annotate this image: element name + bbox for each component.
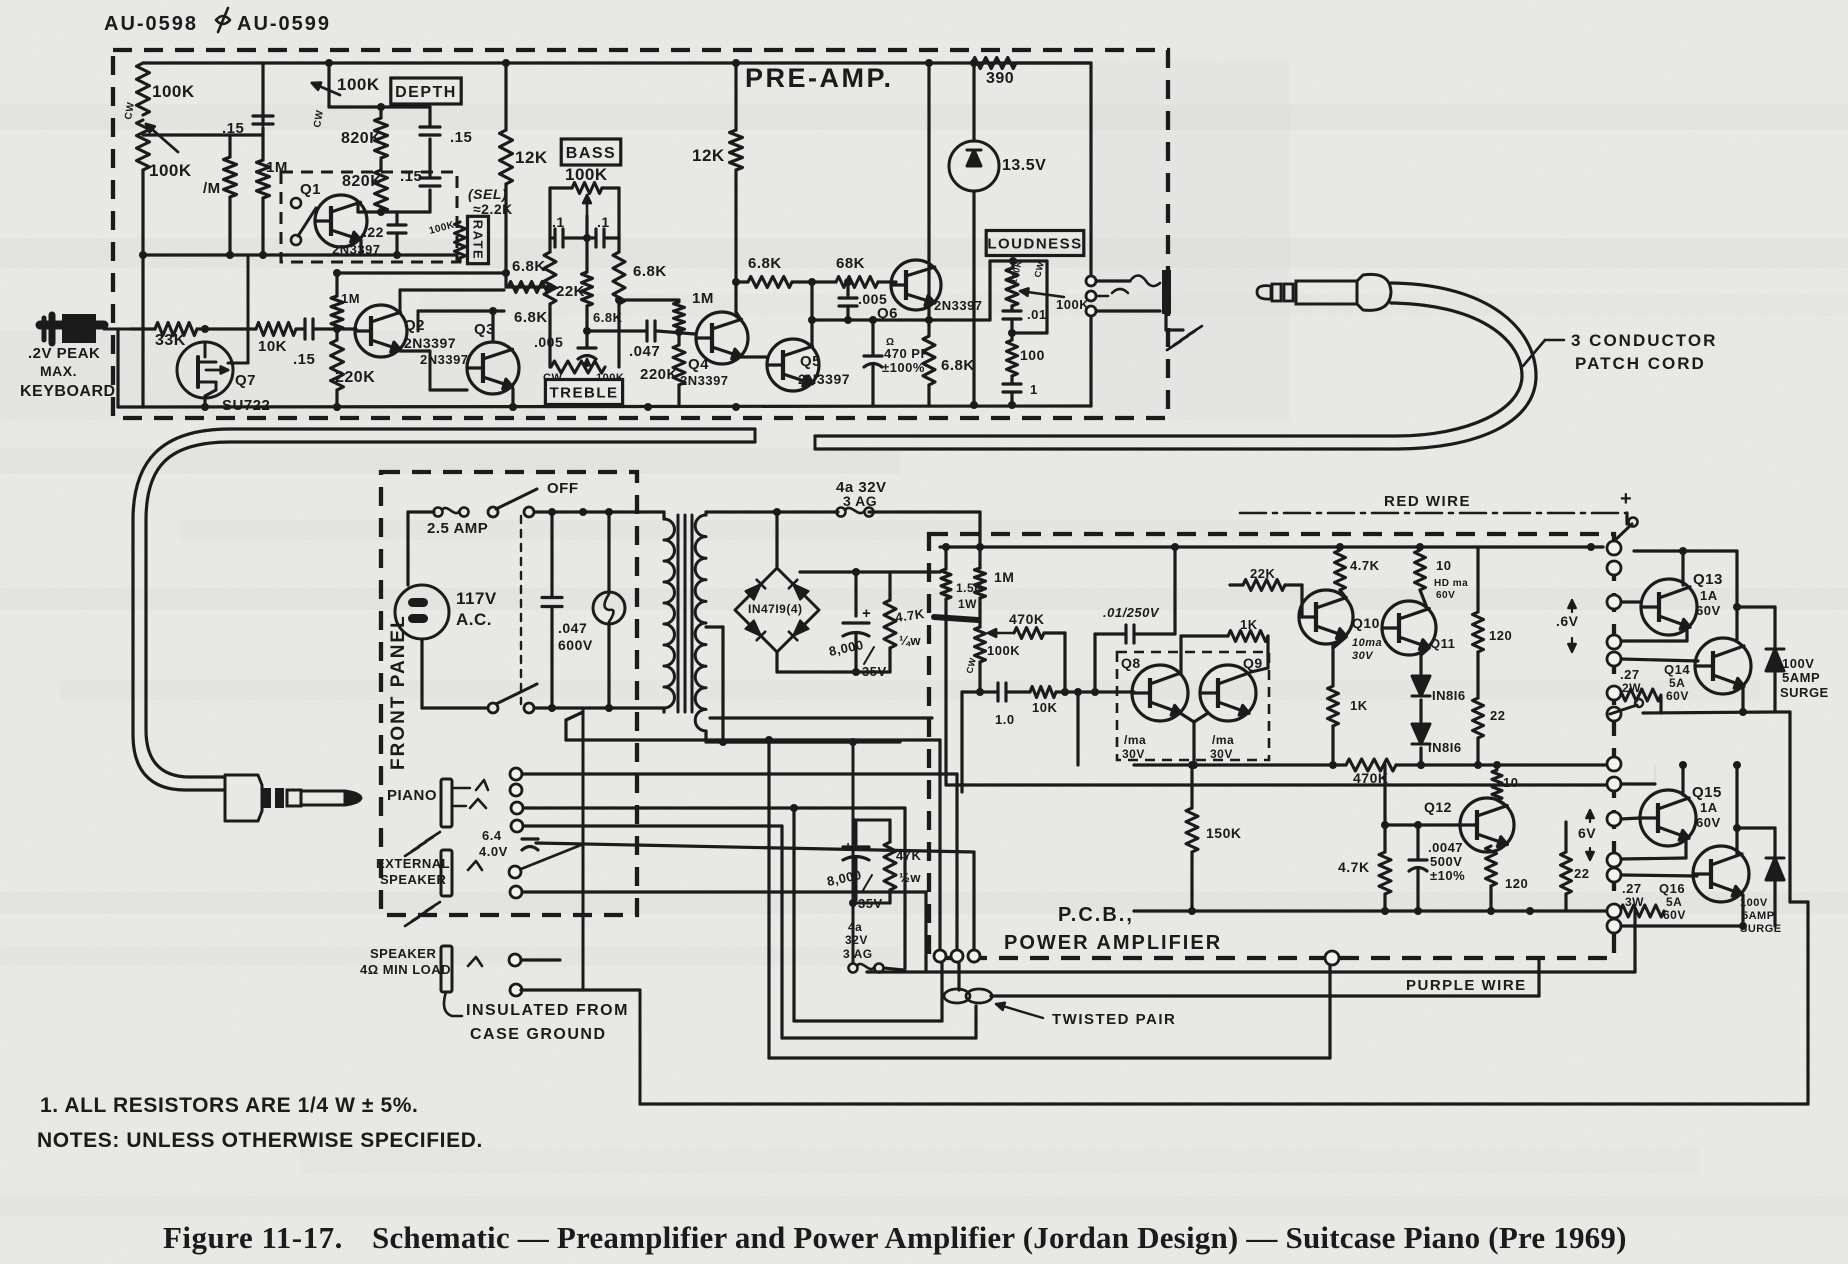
svg-text:10: 10 [1436, 558, 1451, 573]
svg-text:600V: 600V [558, 637, 593, 653]
svg-text:PATCH CORD: PATCH CORD [1575, 354, 1706, 373]
svg-text:13.5V: 13.5V [1002, 157, 1046, 174]
svg-text:.6V: .6V [1556, 613, 1579, 629]
svg-text:NOTES: UNLESS OTHERWISE SPECI: NOTES: UNLESS OTHERWISE SPECIFIED. [37, 1129, 483, 1152]
svg-text:22K: 22K [556, 283, 585, 300]
svg-text:10K: 10K [258, 338, 287, 355]
svg-text:1A: 1A [1700, 588, 1718, 603]
svg-text:100K: 100K [565, 165, 608, 184]
svg-text:1W: 1W [958, 597, 977, 611]
svg-text:MAX.: MAX. [40, 363, 77, 379]
svg-text:1K: 1K [1350, 698, 1368, 713]
svg-text:Q14: Q14 [1664, 662, 1690, 677]
svg-text:.047: .047 [558, 620, 587, 636]
svg-text:1M: 1M [994, 569, 1014, 585]
svg-text:SPEAKER: SPEAKER [380, 872, 446, 887]
svg-text:.01/250V: .01/250V [1103, 605, 1160, 620]
svg-text:(SEL): (SEL) [468, 186, 507, 202]
svg-text:.005: .005 [858, 291, 887, 307]
svg-text:IN8I6: IN8I6 [1428, 740, 1462, 755]
svg-text:1M: 1M [692, 290, 714, 307]
svg-text:32V: 32V [845, 933, 868, 947]
svg-text:.27: .27 [1622, 881, 1642, 896]
svg-text:150K: 150K [1206, 825, 1241, 841]
svg-text:.0047: .0047 [1428, 840, 1463, 855]
svg-text:4.0V: 4.0V [479, 844, 508, 859]
svg-text:470K: 470K [1353, 770, 1388, 786]
svg-text:Q13: Q13 [1693, 571, 1723, 588]
svg-text:.22: .22 [363, 224, 384, 240]
svg-text:33K: 33K [155, 332, 186, 349]
svg-text:100K: 100K [337, 75, 380, 94]
svg-text:6.8K: 6.8K [512, 258, 546, 275]
svg-text:DEPTH: DEPTH [395, 84, 457, 101]
svg-text:4.7K: 4.7K [1338, 859, 1370, 875]
svg-text:5A: 5A [1666, 895, 1682, 909]
svg-text:/ma: /ma [1212, 733, 1234, 747]
svg-text:5A: 5A [1669, 676, 1685, 690]
svg-text:Schematic — Preamplifier and P: Schematic — Preamplifier and Power Ampli… [372, 1220, 1627, 1255]
svg-text:1: 1 [1030, 382, 1038, 397]
svg-text:.01: .01 [1027, 307, 1047, 322]
svg-text:6.8K: 6.8K [748, 255, 782, 272]
svg-text:6.8K: 6.8K [633, 263, 667, 280]
svg-text:A.C.: A.C. [456, 610, 492, 629]
svg-text:POWER AMPLIFIER: POWER AMPLIFIER [1004, 932, 1222, 954]
svg-text:6.4: 6.4 [482, 828, 502, 843]
svg-text:6.8K: 6.8K [514, 309, 548, 326]
svg-text:IN47I9(4): IN47I9(4) [748, 602, 803, 616]
svg-text:.005: .005 [534, 334, 563, 350]
svg-text:1.0: 1.0 [995, 712, 1015, 727]
svg-text:1. ALL RESISTORS ARE 1/4 W ±: 1. ALL RESISTORS ARE 1/4 W ± 5%. [40, 1094, 418, 1117]
svg-text:4Ω MIN LOAD: 4Ω MIN LOAD [360, 962, 451, 977]
svg-text:220K: 220K [640, 366, 678, 383]
svg-text:CASE GROUND: CASE GROUND [470, 1026, 607, 1043]
svg-text:±100%: ±100% [882, 360, 925, 375]
svg-text:Q7: Q7 [235, 372, 256, 389]
svg-text:2N3397: 2N3397 [420, 352, 469, 367]
svg-text:½w: ½w [899, 870, 921, 885]
svg-text:4a: 4a [848, 920, 862, 934]
svg-text:Q12: Q12 [1424, 799, 1452, 815]
svg-text:Q10: Q10 [1352, 615, 1380, 631]
svg-text:10K: 10K [1032, 700, 1057, 715]
svg-text:220K: 220K [335, 369, 375, 386]
svg-text:.27: .27 [1620, 667, 1640, 682]
svg-text:100V: 100V [1782, 656, 1814, 671]
svg-text:Q16: Q16 [1659, 881, 1685, 896]
svg-text:RATE: RATE [470, 220, 485, 260]
svg-text:.1: .1 [597, 214, 610, 230]
svg-text:820K: 820K [341, 130, 381, 147]
svg-text:500V: 500V [1430, 854, 1462, 869]
svg-text:100K: 100K [149, 161, 192, 180]
svg-text:60V: 60V [1436, 590, 1455, 601]
svg-text:.1: .1 [552, 214, 565, 230]
svg-text:470K: 470K [1009, 611, 1044, 627]
svg-text:Figure 11-17.: Figure 11-17. [163, 1220, 343, 1255]
svg-text:SPEAKER: SPEAKER [370, 946, 436, 961]
svg-text:2N3397: 2N3397 [798, 371, 850, 387]
svg-text:100K: 100K [152, 82, 195, 101]
svg-text:Q8: Q8 [1121, 655, 1141, 671]
svg-text:Q2: Q2 [404, 317, 425, 334]
svg-text:30V: 30V [1122, 747, 1145, 761]
svg-text:2N3397: 2N3397 [680, 373, 729, 388]
svg-text:Q5: Q5 [800, 353, 821, 370]
svg-text:30V: 30V [1352, 650, 1374, 662]
svg-text:22: 22 [1490, 708, 1505, 723]
svg-text:/M: /M [203, 180, 221, 197]
svg-text:120: 120 [1489, 628, 1512, 643]
svg-text:1M: 1M [341, 291, 360, 306]
svg-text:10ma: 10ma [1352, 637, 1382, 649]
svg-text:IN8I6: IN8I6 [1432, 688, 1466, 703]
svg-text:68K: 68K [836, 255, 865, 272]
svg-text:6V: 6V [1578, 825, 1596, 841]
svg-text:PIANO: PIANO [387, 787, 437, 804]
svg-text:±10%: ±10% [1430, 868, 1465, 883]
svg-text:.15: .15 [450, 129, 472, 146]
svg-text:10: 10 [1503, 775, 1518, 790]
svg-text:390: 390 [986, 70, 1014, 87]
svg-text:KEYBOARD: KEYBOARD [20, 383, 116, 400]
svg-text:.15: .15 [293, 351, 315, 368]
svg-text:3 AG: 3 AG [843, 947, 873, 961]
svg-text:Q4: Q4 [688, 356, 709, 373]
svg-text:60V: 60V [1696, 603, 1721, 618]
svg-text:100: 100 [1020, 347, 1045, 363]
svg-text:60V: 60V [1696, 815, 1721, 830]
svg-text:2W: 2W [1622, 681, 1641, 695]
svg-text:+: + [1620, 488, 1632, 510]
svg-text:PURPLE WIRE: PURPLE WIRE [1406, 977, 1527, 994]
svg-text:820K: 820K [342, 173, 382, 190]
svg-text:30V: 30V [1210, 747, 1233, 761]
svg-text:2N3397: 2N3397 [404, 335, 456, 351]
svg-text:100K: 100K [987, 643, 1020, 658]
svg-text:/ma: /ma [1124, 733, 1146, 747]
svg-text:AU-0599: AU-0599 [237, 13, 331, 35]
svg-text:1A: 1A [1700, 800, 1718, 815]
svg-text:.2V PEAK: .2V PEAK [28, 345, 100, 362]
svg-text:FRONT PANEL: FRONT PANEL [388, 614, 409, 770]
svg-text:PRE-AMP.: PRE-AMP. [745, 63, 894, 93]
svg-text:120: 120 [1505, 876, 1528, 891]
svg-text:12K: 12K [692, 146, 725, 165]
svg-text:INSULATED FROM: INSULATED FROM [466, 1002, 629, 1019]
svg-text:¼w: ¼w [899, 633, 921, 648]
svg-text:3 CONDUCTOR: 3 CONDUCTOR [1571, 331, 1717, 350]
svg-text:5AMP: 5AMP [1742, 910, 1775, 922]
svg-text:OFF: OFF [547, 480, 579, 497]
svg-text:5AMP: 5AMP [1782, 670, 1820, 685]
svg-text:SURGE: SURGE [1780, 685, 1829, 700]
svg-text:AU-0598: AU-0598 [104, 13, 198, 35]
svg-text:P.C.B.,: P.C.B., [1058, 904, 1134, 926]
svg-text:EXTERNAL: EXTERNAL [376, 856, 450, 871]
svg-text:22K: 22K [1250, 566, 1275, 581]
svg-text:60V: 60V [1663, 908, 1686, 922]
svg-text:4.7K: 4.7K [1350, 558, 1380, 573]
svg-text:3W: 3W [1625, 895, 1644, 909]
svg-text:.047: .047 [629, 343, 660, 360]
svg-text:+: + [862, 605, 871, 622]
svg-text:2.5 AMP: 2.5 AMP [427, 520, 488, 537]
svg-text:22: 22 [1574, 866, 1589, 881]
svg-text:TREBLE: TREBLE [550, 384, 619, 401]
svg-text:RED WIRE: RED WIRE [1384, 493, 1471, 510]
svg-text:Q11: Q11 [1430, 636, 1455, 651]
svg-text:6.8K: 6.8K [941, 357, 975, 374]
svg-text:3 AG: 3 AG [843, 493, 877, 509]
svg-text:470 PF: 470 PF [884, 346, 929, 361]
svg-text:12K: 12K [515, 148, 548, 167]
svg-text:HD ma: HD ma [1434, 578, 1468, 589]
svg-text:1K: 1K [1240, 617, 1258, 632]
svg-text:Q15: Q15 [1692, 784, 1722, 801]
svg-text:TWISTED PAIR: TWISTED PAIR [1052, 1011, 1176, 1028]
svg-text:LOUDNESS: LOUDNESS [987, 235, 1082, 252]
svg-text:BASS: BASS [566, 145, 616, 162]
svg-text:Q1: Q1 [300, 181, 321, 198]
svg-text:60V: 60V [1666, 689, 1689, 703]
svg-text:117V: 117V [456, 589, 497, 608]
svg-text:100K: 100K [1056, 297, 1089, 312]
